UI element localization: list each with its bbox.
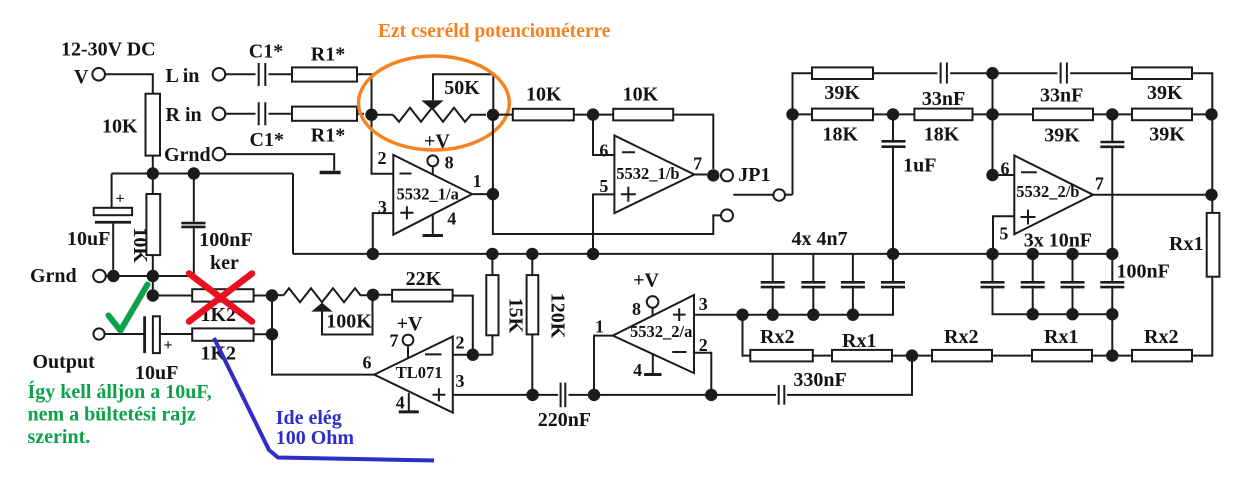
resistor R15 39K row2 <box>1033 109 1093 147</box>
svg-text:Rx1: Rx1 <box>842 330 876 352</box>
svg-text:7: 7 <box>1095 174 1104 194</box>
svg-text:R1*: R1* <box>311 44 345 66</box>
svg-text:6: 6 <box>363 353 372 373</box>
node A input summing junction <box>365 109 377 121</box>
wire Rx1b to Rx2c <box>1092 355 1132 357</box>
svg-text:+V: +V <box>397 313 423 335</box>
capacitor C2 10uF electrolytic <box>67 174 132 270</box>
svg-text:8: 8 <box>445 153 454 173</box>
power pin TL071 pin7 <box>390 313 423 358</box>
junction Vref-100nF <box>188 167 200 179</box>
wire pot to R6 <box>373 294 392 296</box>
junction left column row2 <box>786 108 798 120</box>
wire U2b pin7 output <box>1093 194 1212 196</box>
capacitor C7 4n7 <box>801 254 825 315</box>
wire R9 to R10 <box>493 114 613 116</box>
wire U3a pin1 output down <box>594 336 613 395</box>
junction bus U2b pin5 <box>986 248 998 260</box>
resistor R7 15K vertical <box>486 254 526 335</box>
resistor R14 18K mid <box>914 109 972 146</box>
svg-text:1: 1 <box>595 317 604 337</box>
svg-text:220nF: 220nF <box>538 409 591 431</box>
svg-text:Grnd: Grnd <box>164 144 211 166</box>
wire R11 to 33nF <box>873 72 937 74</box>
junction 10nF top <box>1106 108 1118 120</box>
svg-text:TL071: TL071 <box>396 363 443 382</box>
junction ground-10K <box>147 270 159 282</box>
svg-text:100nF: 100nF <box>199 229 252 251</box>
capacitor C1* left channel <box>249 41 283 87</box>
wire R16 to right column <box>1192 113 1212 115</box>
wire U1b pin6 to node <box>593 115 614 155</box>
resistor Rx2 c <box>1132 326 1192 361</box>
annotation red X over 1K2 <box>189 274 252 322</box>
wire 33nF to R12 <box>1070 72 1132 74</box>
capacitor C17 10nF <box>1061 254 1085 314</box>
wire mid column vertical <box>992 73 994 175</box>
svg-text:4: 4 <box>447 209 456 229</box>
wire JP1 pin2 up right column <box>793 73 813 195</box>
resistor Rx2 a <box>750 326 813 361</box>
wire TL071 pin3 bottom rail <box>453 394 558 396</box>
wire 33nF to mid column <box>950 72 1057 74</box>
svg-text:100 Ohm: 100 Ohm <box>276 427 355 449</box>
junction bus cap column <box>887 248 899 260</box>
svg-text:V: V <box>74 66 89 88</box>
junction U3a pin2 node <box>705 389 717 401</box>
wire U2b pin5 to bus <box>993 216 1014 254</box>
junction TL071 pin2 node <box>467 349 479 361</box>
junction U1a output <box>487 188 499 200</box>
svg-text:5532_1/b: 5532_1/b <box>616 164 679 183</box>
svg-text:R in: R in <box>166 104 202 126</box>
wire Grnd input to ground <box>225 154 334 170</box>
svg-text:39K: 39K <box>1044 125 1080 147</box>
junction pin3 Rx2 tap <box>736 309 748 321</box>
ground U3a pin4 <box>633 354 661 380</box>
wire R5 right to node B <box>254 333 272 335</box>
ground symbol input <box>320 171 341 175</box>
wire R13 to 1uF node <box>873 113 914 115</box>
resistor R1* right channel <box>292 107 357 147</box>
svg-text:Rx2: Rx2 <box>944 326 978 348</box>
junction bus 10nF b <box>1066 248 1078 260</box>
svg-text:7: 7 <box>390 331 399 351</box>
svg-text:Output: Output <box>33 351 96 373</box>
wire Rx2c to right column <box>1192 277 1212 356</box>
svg-text:+: + <box>116 191 125 208</box>
ground TL071 pin4 <box>396 393 419 414</box>
annotation green text <box>28 380 212 448</box>
junction 1K2 row left <box>147 289 159 301</box>
svg-text:1: 1 <box>473 171 482 191</box>
svg-text:Rx1: Rx1 <box>1169 233 1203 255</box>
capacitor C1* right channel <box>250 102 284 151</box>
wire R12 to right column <box>1192 73 1212 213</box>
junction JP1 pin1 <box>707 169 719 181</box>
svg-text:8: 8 <box>632 299 641 319</box>
junction Rx chain right <box>1106 349 1118 361</box>
svg-text:39K: 39K <box>1149 124 1185 146</box>
wire U1b pin5 to Vref bus <box>593 194 614 254</box>
svg-text:39K: 39K <box>1147 82 1183 104</box>
annotation blue pointer line <box>214 338 434 461</box>
svg-text:4x 4n7: 4x 4n7 <box>792 228 848 250</box>
resistor R17 Rx1 vertical <box>1169 213 1219 277</box>
junction 10nF c bottom <box>1066 308 1078 320</box>
op-amp U3a 5532_2/a mirrored <box>595 294 708 373</box>
svg-text:2: 2 <box>456 333 465 353</box>
svg-text:JP1: JP1 <box>738 164 770 186</box>
capacitor C10 330nF <box>714 369 847 405</box>
junction bus 15K <box>486 248 498 260</box>
svg-text:3: 3 <box>456 371 465 391</box>
resistor R12 39K top right <box>1132 67 1192 104</box>
wire R in to C1 <box>225 113 255 115</box>
svg-text:5532_2/a: 5532_2/a <box>630 322 692 341</box>
svg-text:+V: +V <box>633 270 659 292</box>
svg-text:15K: 15K <box>505 298 527 334</box>
svg-text:12-30V DC: 12-30V DC <box>61 39 156 61</box>
wire node B to pot P2 <box>272 294 284 296</box>
wire Rx2b to Rx1b <box>992 355 1032 357</box>
resistor R2 10K vertical <box>102 94 160 156</box>
resistor R10 10K <box>613 84 673 121</box>
svg-text:L in: L in <box>166 65 200 87</box>
wire 220nF to 5532_2a output node <box>569 394 712 396</box>
svg-text:Ide elég: Ide elég <box>276 407 342 429</box>
wire node A down to U1a pin2 <box>372 115 394 174</box>
wire R1 right to node A <box>357 113 364 115</box>
wire R10 right down to U1b output <box>673 115 713 169</box>
svg-text:+: + <box>164 337 173 354</box>
op-amp U2b 5532_2/b <box>999 156 1104 244</box>
svg-text:Ezt cseréld potenciométerre: Ezt cseréld potenciométerre <box>378 21 611 42</box>
junction right column output <box>1205 189 1217 201</box>
resistor R3 10K vertical to ground <box>129 174 160 296</box>
jumper JP1 pin1 <box>721 169 733 181</box>
svg-text:100nF: 100nF <box>1117 261 1170 283</box>
junction 100nF bottom <box>1106 308 1118 320</box>
wire U1a pin3 to Vref bus <box>373 213 394 254</box>
svg-text:ker: ker <box>210 252 239 274</box>
annotation blue text <box>276 407 355 449</box>
power pin U3a pin8 <box>632 270 659 320</box>
svg-text:Rx2: Rx2 <box>760 326 794 348</box>
potentiometer P2 100K <box>284 288 374 334</box>
wire feedback to JP1 pin3 <box>493 194 721 234</box>
jumper JP1 pin3 <box>721 209 733 221</box>
wire R1 left to node A <box>357 74 372 108</box>
svg-text:33nF: 33nF <box>1040 85 1083 107</box>
power pin U1a pin8 <box>424 131 454 175</box>
svg-text:5532_1/a: 5532_1/a <box>397 185 459 204</box>
capacitor C13 1uF <box>882 114 937 247</box>
junction Vref-10K <box>147 167 159 179</box>
svg-text:nem a bültetési rajz: nem a bültetési rajz <box>28 404 196 426</box>
resistor R16 39K row2 right <box>1132 109 1192 146</box>
capacitor C14 10nF series <box>1100 114 1124 254</box>
wire Output to C4 <box>105 333 143 335</box>
wire U1b pin7 output <box>694 174 707 176</box>
wire R4 right to node B <box>254 295 272 297</box>
jumper JP1 pin2 <box>733 189 792 201</box>
potentiometer P1 50K <box>393 74 493 122</box>
svg-text:szerint.: szerint. <box>28 426 91 448</box>
junction U1b pin6 node <box>587 108 599 120</box>
svg-text:10K: 10K <box>526 84 562 106</box>
wire cap bottom rail left group <box>743 287 894 314</box>
wire U3a pin2 down to output node <box>694 353 711 395</box>
capacitor C3 100nF ker <box>181 174 252 277</box>
wire R6 right down to TL071 pin2 node <box>453 296 473 355</box>
junction bus U1b pin5 <box>587 248 599 260</box>
wire U3a pin3 right <box>694 314 743 316</box>
wire Rx2a to Rx1a <box>813 355 832 357</box>
resistor R9 10K <box>513 84 574 121</box>
svg-text:C1*: C1* <box>250 129 284 151</box>
junction Rx chain 330nF tap <box>906 349 918 361</box>
junction row2 mid column <box>986 108 998 120</box>
svg-text:120K: 120K <box>547 293 569 339</box>
resistor Rx2 b <box>932 326 992 361</box>
capacitor C18 100nF <box>1100 254 1170 356</box>
junction U2b pin6 <box>986 169 998 181</box>
capacitor C4 10uF output electrolytic <box>135 316 178 384</box>
op-amp U1b 5532_1/b <box>599 136 702 214</box>
wire Rx1a to Rx2b <box>892 355 932 357</box>
wire C1 to R1 right channel <box>269 113 293 115</box>
junction cap3 bottom <box>847 309 859 321</box>
wire 330nF tap down <box>787 356 912 395</box>
junction 120K bottom <box>526 389 538 401</box>
svg-text:2: 2 <box>378 148 387 168</box>
wire 10K bottom to Vref rail <box>152 156 154 174</box>
svg-text:5: 5 <box>599 176 608 196</box>
op-amp U2 TL071 mirrored <box>363 333 465 413</box>
wire U2b pin6 <box>993 174 1015 176</box>
capacitor C8 4n7 <box>841 254 865 315</box>
resistor R8 120K vertical <box>527 254 569 395</box>
resistor Rx1 b <box>1032 326 1092 361</box>
svg-text:18K: 18K <box>823 124 859 146</box>
wire Vref bus main <box>293 253 1112 255</box>
svg-text:10K: 10K <box>102 116 138 138</box>
wire output node vertical <box>492 115 494 194</box>
wire row2 18K <box>793 113 813 115</box>
resistor R5 1K2 series output <box>192 328 253 364</box>
junction 10nF b bottom <box>1027 308 1039 320</box>
svg-text:6: 6 <box>599 141 608 161</box>
wire ground rail bottom <box>106 275 194 277</box>
junction 1uF top <box>887 108 899 120</box>
svg-text:10K: 10K <box>623 84 659 106</box>
annotation green check mark <box>109 285 148 331</box>
terminal Output <box>33 328 105 373</box>
resistor R6 22K <box>392 268 453 302</box>
junction bus 100nF <box>1106 248 1118 260</box>
svg-text:Rx1: Rx1 <box>1044 326 1078 348</box>
wire Vref rail horizontal y173.5 <box>112 173 293 175</box>
resistor R1* left channel <box>292 44 357 82</box>
wire pin2 node to 15K bottom <box>453 335 493 354</box>
wire Vref rail down to bus <box>292 174 294 254</box>
junction pot P1 right <box>487 109 499 121</box>
svg-text:22K: 22K <box>406 268 442 290</box>
svg-text:1uF: 1uF <box>903 155 936 177</box>
svg-text:7: 7 <box>693 154 702 174</box>
svg-text:33nF: 33nF <box>922 88 965 110</box>
ground U1a pin4 <box>423 209 457 238</box>
junction node B lower <box>266 328 278 340</box>
wire L in to C1 <box>225 73 255 75</box>
wire R14 to mid column <box>973 113 1034 115</box>
wire V supply to 10K R2 top <box>105 74 153 93</box>
terminal R in <box>166 104 226 126</box>
annotation orange ellipse <box>359 56 510 150</box>
capacitor C5 220nF <box>538 383 591 431</box>
svg-text:18K: 18K <box>924 124 960 146</box>
svg-text:+V: +V <box>424 131 450 153</box>
capacitor C12 33nF <box>1040 63 1083 107</box>
svg-text:3x 10nF: 3x 10nF <box>1024 230 1092 252</box>
capacitor C15 10nF <box>981 254 1113 314</box>
svg-text:Grnd: Grnd <box>30 265 77 287</box>
junction bus U1a pin3 <box>367 248 379 260</box>
svg-text:100K: 100K <box>326 311 372 333</box>
wire Rx2a tap down <box>743 315 751 356</box>
svg-text:39K: 39K <box>824 82 860 104</box>
svg-text:R1*: R1* <box>311 125 345 147</box>
resistor R4 1K2 bypassed <box>192 289 253 326</box>
wire U1a pin1 output <box>472 193 493 195</box>
junction right column row2 <box>1205 108 1217 120</box>
svg-text:5532_2/b: 5532_2/b <box>1016 182 1079 201</box>
junction 5532_2a pin1 node <box>588 389 600 401</box>
capacitor C9 4n7 fourth <box>881 247 905 288</box>
op-amp U1a 5532_1/a <box>378 148 482 235</box>
junction ground-10uF <box>107 270 119 282</box>
svg-text:Rx2: Rx2 <box>1144 326 1178 348</box>
resistor Rx1 a <box>832 330 892 361</box>
svg-text:4: 4 <box>633 360 642 380</box>
node B vertical wire to TL071 output <box>272 296 375 375</box>
resistor R13 18K <box>812 109 873 146</box>
svg-text:50K: 50K <box>444 77 480 99</box>
svg-text:C1*: C1* <box>249 41 283 63</box>
svg-text:330nF: 330nF <box>793 369 846 391</box>
junction top row mid column <box>986 67 998 79</box>
junction cap1 bottom <box>767 309 779 321</box>
terminal V <box>74 66 105 88</box>
svg-text:3: 3 <box>699 294 708 314</box>
capacitor C16 10nF <box>1021 254 1045 314</box>
svg-text:Így kell álljon a 10uF,: Így kell álljon a 10uF, <box>28 380 212 403</box>
wire C4 to resistor R5 <box>160 333 192 335</box>
terminal Grnd top <box>164 144 225 166</box>
wire R15 to 10nF node <box>1093 113 1132 115</box>
svg-text:5: 5 <box>999 224 1008 244</box>
wire C1 to R1 <box>269 73 293 75</box>
junction node B top <box>266 289 278 301</box>
junction cap2 bottom <box>807 309 819 321</box>
svg-text:10K: 10K <box>129 227 151 263</box>
svg-text:10uF: 10uF <box>67 228 110 250</box>
capacitor C6 4n7 <box>761 254 785 315</box>
junction pot P2 right <box>367 289 379 301</box>
capacitor C11 33nF <box>922 63 965 111</box>
terminal L in <box>166 65 226 87</box>
svg-text:4: 4 <box>396 393 405 413</box>
resistor R11 39K top left <box>812 67 873 104</box>
terminal Grnd bottom <box>30 265 106 287</box>
junction bus 10nF a <box>1027 248 1039 260</box>
wire to resistor R4 <box>153 295 192 297</box>
junction bus 120K <box>526 248 538 260</box>
